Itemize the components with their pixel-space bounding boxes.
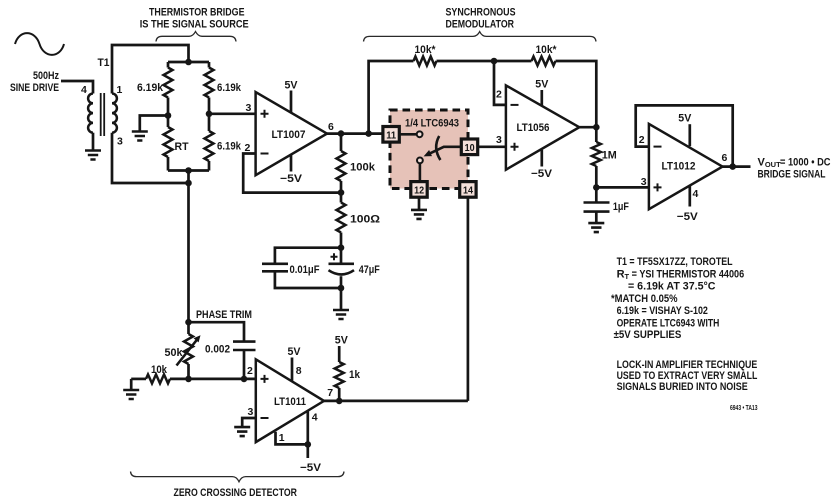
potentiometer 50k bbox=[184, 334, 193, 364]
brace zero crossing detector bbox=[131, 472, 345, 482]
node pot bottom bbox=[185, 376, 192, 383]
op-amp plus mark LT1012 bbox=[654, 183, 662, 191]
svg-text:4: 4 bbox=[693, 188, 699, 200]
node demod mid rail bbox=[491, 58, 498, 65]
node bridge bottom bbox=[185, 167, 192, 174]
transformer core bbox=[101, 93, 105, 136]
svg-text:= 6.19k AT 37.5°C: = 6.19k AT 37.5°C bbox=[628, 280, 716, 292]
node cap top bbox=[338, 244, 345, 251]
svg-text:8: 8 bbox=[296, 365, 302, 377]
op-amp U3 LT1012 bbox=[649, 124, 723, 209]
wire output to 1M bbox=[595, 127, 598, 142]
svg-text:7: 7 bbox=[327, 387, 333, 399]
wire 1k top lead bbox=[338, 346, 341, 362]
svg-text:6943 • TA13: 6943 • TA13 bbox=[730, 403, 758, 412]
op-amp U4 LT1011 bbox=[256, 359, 324, 442]
node bridge right mid bbox=[206, 111, 213, 118]
svg-text:−5V: −5V bbox=[280, 173, 303, 185]
svg-text:10: 10 bbox=[465, 142, 475, 154]
svg-text:SINE DRIVE: SINE DRIVE bbox=[10, 82, 59, 94]
wire cap top rail bbox=[275, 248, 341, 264]
svg-text:5V: 5V bbox=[335, 335, 349, 347]
wire 10k rail to LT1056 output bbox=[556, 61, 597, 127]
wire LT1011 -in to ground bbox=[242, 418, 256, 427]
wire 5V stub LT1012 bbox=[688, 124, 691, 146]
wire 1uF top lead bbox=[595, 187, 598, 202]
wire primary bottom to ground bbox=[92, 133, 95, 150]
svg-text:3: 3 bbox=[496, 134, 502, 146]
wire 1uF bottom lead bbox=[595, 212, 598, 223]
pin box 14 bbox=[460, 182, 476, 198]
resistor R 10k bbox=[146, 374, 170, 383]
wire pin10 to LT1056 +in bbox=[478, 145, 506, 148]
node LT1012 output feedback bbox=[729, 163, 736, 170]
op-amp minus mark LT1012 bbox=[654, 146, 662, 148]
svg-text:14: 14 bbox=[463, 184, 473, 196]
label SYNCHRONOUS DEMODULATOR bbox=[446, 7, 516, 31]
sine wave symbol bbox=[15, 33, 64, 55]
wire pin12 to ground bbox=[418, 197, 421, 209]
ground (transformer primary) bbox=[85, 151, 101, 160]
svg-text:4: 4 bbox=[81, 84, 87, 96]
svg-text:5V: 5V bbox=[285, 80, 299, 92]
svg-text:= 1000 • DC: = 1000 • DC bbox=[780, 156, 831, 168]
wire pin 1 bbox=[276, 432, 308, 445]
wire right branch top lead bbox=[208, 62, 211, 68]
svg-text:0.002: 0.002 bbox=[205, 344, 230, 356]
wire to -5V bbox=[306, 444, 309, 458]
resistor R 10k* left bbox=[414, 57, 437, 66]
svg-text:100Ω: 100Ω bbox=[350, 214, 380, 226]
wire 100k to feedback node bbox=[340, 181, 343, 203]
wire LT1007 output bbox=[327, 132, 383, 135]
wire -5V stub LT1007 bbox=[290, 155, 293, 172]
svg-text:50k: 50k bbox=[165, 347, 184, 359]
svg-text:3: 3 bbox=[246, 102, 252, 114]
node bridge bottom junction bbox=[185, 180, 192, 187]
svg-text:−5V: −5V bbox=[677, 211, 699, 223]
wire pin11 to switch throw bbox=[399, 133, 416, 136]
wire LT1056 -in leg bbox=[494, 61, 506, 105]
pin box 11 bbox=[383, 127, 399, 143]
wire 47uF top lead bbox=[340, 248, 343, 264]
transformer T1 primary winding bbox=[88, 94, 93, 133]
wire 5V stub LT1011 bbox=[291, 358, 294, 381]
svg-text:BRIDGE SIGNAL: BRIDGE SIGNAL bbox=[758, 168, 826, 180]
capacitor C 0.01uF bbox=[262, 264, 288, 272]
wire left branch bottom lead bbox=[167, 157, 170, 171]
svg-text:ZERO CROSSING DETECTOR: ZERO CROSSING DETECTOR bbox=[174, 487, 298, 499]
svg-text:6: 6 bbox=[722, 152, 728, 164]
wire 0.01uF bottom lead bbox=[275, 272, 341, 289]
ground (LT1011 -in) bbox=[234, 427, 250, 436]
switch actuation arc bbox=[436, 136, 440, 160]
wire secondary pin3 to junction bbox=[112, 133, 189, 183]
svg-text:10k: 10k bbox=[151, 364, 168, 376]
wire right branch bottom lead bbox=[208, 161, 211, 171]
wire 1k bottom lead bbox=[338, 388, 341, 401]
svg-text:SIGNALS BURIED INTO NOISE: SIGNALS BURIED INTO NOISE bbox=[617, 381, 748, 393]
wire LT1056 output bbox=[579, 126, 596, 129]
wire right branch middle bbox=[208, 98, 211, 132]
capacitor C 0.002 bbox=[233, 342, 256, 350]
wire input line to LT1011 bbox=[170, 378, 256, 381]
svg-text:IS THE SIGNAL SOURCE: IS THE SIGNAL SOURCE bbox=[140, 19, 249, 31]
label VOUT = 1000 DC BRIDGE SIGNAL bbox=[758, 156, 831, 180]
ground (bridge) bbox=[132, 132, 148, 141]
node phase trim top bbox=[185, 319, 192, 326]
svg-text:THERMISTOR BRIDGE: THERMISTOR BRIDGE bbox=[149, 7, 245, 19]
resistor 6.19k (bridge left top) bbox=[164, 68, 173, 98]
wire pot bottom lead bbox=[187, 364, 190, 379]
resistor R 1k bbox=[335, 362, 344, 388]
wire bridge bottom rail bbox=[168, 169, 209, 172]
brace thermistor bridge bbox=[156, 32, 236, 42]
svg-text:6.19k: 6.19k bbox=[137, 82, 164, 94]
svg-text:2: 2 bbox=[247, 365, 253, 377]
svg-text:LT1056: LT1056 bbox=[517, 122, 550, 134]
wire junction down to phase trim bbox=[187, 183, 190, 322]
node cap bottom bbox=[338, 285, 345, 292]
svg-text:5V: 5V bbox=[678, 113, 692, 125]
wire left branch top lead bbox=[167, 62, 170, 68]
svg-text:*MATCH 0.05%: *MATCH 0.05% bbox=[611, 293, 678, 305]
wire 100ohm to cap node bbox=[340, 233, 343, 248]
svg-text:5V: 5V bbox=[535, 79, 549, 91]
wire bridge top rail bbox=[168, 61, 209, 64]
svg-text:T1: T1 bbox=[98, 57, 110, 69]
label 500Hz SINE DRIVE bbox=[10, 70, 59, 94]
svg-text:3: 3 bbox=[641, 176, 647, 188]
wire bridge output to LT1007 +in bbox=[209, 112, 256, 115]
svg-text:47μF: 47μF bbox=[359, 264, 380, 276]
svg-text:1M: 1M bbox=[602, 150, 617, 162]
svg-text:10k*: 10k* bbox=[536, 44, 558, 56]
brace synchronous demodulator bbox=[364, 32, 597, 42]
wire 47uF bottom lead bbox=[340, 276, 343, 288]
transformer T1 secondary winding bbox=[112, 94, 117, 133]
svg-text:500Hz: 500Hz bbox=[33, 70, 59, 82]
svg-text:4: 4 bbox=[312, 412, 318, 424]
svg-text:3: 3 bbox=[117, 135, 123, 147]
svg-text:10k*: 10k* bbox=[415, 44, 437, 56]
svg-text:OPERATE LTC6943 WITH: OPERATE LTC6943 WITH bbox=[617, 317, 720, 329]
svg-text:12: 12 bbox=[414, 184, 424, 196]
svg-text:6.19k: 6.19k bbox=[217, 82, 242, 94]
svg-text:1k: 1k bbox=[349, 369, 361, 381]
switch throw contact lower bbox=[417, 158, 423, 164]
op-amp minus mark LT1056 bbox=[511, 104, 519, 106]
node LT1056 output bbox=[593, 124, 600, 131]
svg-text:LT1011: LT1011 bbox=[274, 396, 306, 408]
node output 100k tap bbox=[338, 130, 345, 137]
wire LT1012 feedback loop bbox=[636, 105, 733, 166]
wire secondary top to bridge top bbox=[112, 45, 189, 94]
resistor R 10k* right bbox=[532, 57, 556, 66]
resistor R 100k bbox=[337, 151, 346, 181]
wire input line left bbox=[131, 378, 146, 381]
wire lower contact to pin 12 bbox=[419, 163, 422, 181]
svg-text:0.01μF: 0.01μF bbox=[290, 264, 320, 276]
switch block 1/4 LTC6943 bbox=[390, 110, 468, 189]
svg-text:6.19k = VISHAY S-102: 6.19k = VISHAY S-102 bbox=[617, 305, 708, 317]
svg-text:T1 = TF5SX17ZZ, TOROTEL: T1 = TF5SX17ZZ, TOROTEL bbox=[617, 256, 733, 268]
wire sine drive to transformer bbox=[61, 81, 93, 94]
wire 5V stub LT1056 bbox=[540, 90, 543, 106]
node bridge top bbox=[185, 59, 192, 66]
op-amp minus input mark bbox=[261, 153, 269, 155]
op-amp plus mark LT1056 bbox=[511, 143, 519, 151]
wire phase trim top rail bbox=[189, 322, 245, 341]
svg-text:5V: 5V bbox=[288, 346, 302, 358]
svg-text:−5V: −5V bbox=[300, 462, 322, 474]
pin box 10 bbox=[461, 139, 477, 155]
wire output to 100k bbox=[340, 134, 343, 151]
wire LT1012 output bbox=[723, 165, 751, 168]
wire 0.002 bottom lead bbox=[243, 350, 246, 379]
op-amp U1 LT1007 bbox=[256, 92, 327, 175]
svg-text:2: 2 bbox=[496, 89, 502, 101]
node 0.002 bottom bbox=[241, 376, 248, 383]
switch wiper arrowhead bbox=[424, 150, 432, 156]
op-amp plus mark LT1011 bbox=[261, 375, 269, 383]
svg-text:3: 3 bbox=[248, 406, 254, 418]
pin box 12 bbox=[411, 182, 427, 198]
svg-text:6: 6 bbox=[328, 121, 334, 133]
wire pin14 down to comparator output bbox=[467, 197, 470, 401]
wire pot top lead bbox=[187, 322, 190, 334]
wire bridge bottom stub bbox=[187, 171, 190, 184]
label THERMISTOR BRIDGE IS THE SIGNAL SOURCE bbox=[140, 7, 249, 31]
svg-text:2: 2 bbox=[639, 134, 645, 146]
wire left branch middle bbox=[167, 98, 170, 128]
node output demod tap bbox=[365, 130, 372, 137]
svg-text:1: 1 bbox=[279, 432, 285, 444]
op-amp plus input mark bbox=[261, 110, 269, 118]
svg-text:1: 1 bbox=[117, 84, 123, 96]
svg-text:11: 11 bbox=[386, 129, 396, 141]
node bridge left mid bbox=[165, 112, 172, 119]
capacitor C 1uF bbox=[584, 203, 610, 212]
wire 5V stub LT1007 bbox=[290, 91, 293, 113]
ground (LTC6943 pin 12) bbox=[411, 210, 427, 219]
switch throw contact upper bbox=[417, 131, 423, 137]
wire cap bottom to ground bbox=[340, 288, 343, 310]
resistor R 1M bbox=[592, 142, 601, 166]
svg-text:RT = YSI THERMISTOR 44006: RT = YSI THERMISTOR 44006 bbox=[617, 268, 745, 281]
wire left mid to ground bbox=[140, 116, 168, 132]
wire between 10k resistors bbox=[437, 60, 532, 63]
wire -5V stub LT1012 bbox=[688, 186, 691, 207]
node lowpass bbox=[593, 184, 600, 191]
resistor 6.19k (bridge right bottom) bbox=[205, 131, 214, 161]
wire -5V stub LT1056 bbox=[540, 150, 543, 167]
svg-text:100k: 100k bbox=[350, 162, 376, 174]
potentiometer arrow bbox=[177, 335, 201, 365]
svg-text:1/4 LTC6943: 1/4 LTC6943 bbox=[405, 117, 459, 129]
svg-text:±5V SUPPLIES: ±5V SUPPLIES bbox=[614, 329, 682, 341]
node output 1k tap bbox=[336, 398, 343, 405]
svg-text:RT: RT bbox=[175, 141, 189, 153]
node pin1 pin4 bbox=[305, 441, 312, 448]
svg-text:PHASE TRIM: PHASE TRIM bbox=[196, 309, 252, 321]
switch wiper from pin 10 bbox=[428, 147, 462, 155]
svg-text:USED TO EXTRACT VERY SMALL: USED TO EXTRACT VERY SMALL bbox=[617, 370, 758, 382]
resistor 6.19k (bridge right top) bbox=[205, 68, 214, 98]
svg-text:LT1012: LT1012 bbox=[662, 161, 696, 173]
svg-text:SYNCHRONOUS: SYNCHRONOUS bbox=[446, 7, 516, 19]
wire LT1011 output bbox=[324, 400, 468, 403]
capacitor C 47uF electrolytic bbox=[329, 253, 355, 274]
thermistor RT (bridge left bottom) bbox=[164, 127, 173, 157]
ground (10k input) bbox=[123, 390, 139, 399]
svg-text:−5V: −5V bbox=[531, 168, 553, 180]
ground (1uF) bbox=[588, 223, 604, 232]
svg-text:DEMODULATOR: DEMODULATOR bbox=[446, 18, 515, 30]
svg-text:1μF: 1μF bbox=[613, 201, 629, 213]
resistor R 100ohm bbox=[337, 203, 346, 233]
wire pin 4 bbox=[306, 410, 309, 444]
notes text block bbox=[611, 256, 758, 412]
wire demod tap up to 10k rail bbox=[369, 61, 414, 134]
ground (filter caps) bbox=[333, 310, 349, 319]
op-amp U2 LT1056 bbox=[506, 85, 579, 169]
wire ground stub 10k bbox=[130, 379, 133, 390]
svg-text:6.19k: 6.19k bbox=[217, 141, 242, 153]
svg-text:LT1007: LT1007 bbox=[272, 129, 306, 141]
wire lowpass to LT1012 +in bbox=[596, 186, 649, 189]
wire LT1007 feedback bbox=[243, 154, 341, 193]
op-amp minus mark LT1011 bbox=[261, 417, 269, 419]
node feedback bbox=[338, 189, 345, 196]
wire 1M to lowpass node bbox=[595, 166, 598, 187]
